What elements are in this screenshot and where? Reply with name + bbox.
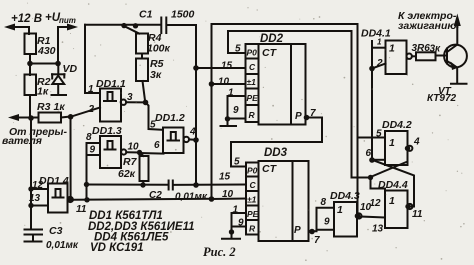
svg-text:P0: P0 [247,48,258,58]
wire DD1.1 out to DD1.2 pin5 [146,102,164,129]
wire row A (R7/C2 line) [84,182,169,187]
wire DD2 carry out P pin7 to DD3 pin5 [231,108,322,167]
svg-text:DD2: DD2 [260,33,284,45]
wire DD4.4 out cross to DD4.2 pin6 [374,161,414,207]
ground under transistor emitter [451,83,467,85]
svg-text:Рис. 2: Рис. 2 [203,245,236,259]
wire DD2 up/down input stub [212,83,246,85]
logic element DD1.2 (Schmitt) [150,112,196,153]
counter DD3 K561IE11 [219,147,309,241]
NOR gate DD4.3 [321,190,372,237]
svg-text:0,01мк: 0,01мк [46,240,79,251]
svg-text:62к: 62к [118,168,136,180]
svg-text:±1: ±1 [247,195,257,205]
resistor R5 3k [136,58,164,102]
svg-text:VD КС191: VD КС191 [90,242,144,254]
svg-text:вателя: вателя [2,135,42,147]
svg-text:2: 2 [88,104,95,115]
svg-text:3: 3 [127,92,133,103]
svg-text:зажиганию: зажиганию [398,20,456,32]
svg-text:R: R [249,110,256,120]
svg-text:4: 4 [413,137,420,148]
svg-text:R3: R3 [37,101,51,113]
svg-text:DD3: DD3 [264,147,288,159]
svg-text:1: 1 [389,195,395,207]
wire row B (DD1.4 out line) [74,197,212,202]
svg-text:DD4.1: DD4.1 [361,28,391,40]
svg-text:1к: 1к [37,86,49,98]
transistor VT KT972 [427,27,467,104]
svg-text:R7: R7 [123,156,138,168]
svg-text:15: 15 [219,172,231,183]
node DD1.1 out / R5 [143,100,149,106]
wire top line to C1 [85,23,161,34]
svg-text:1к: 1к [54,101,66,113]
svg-text:C3: C3 [49,225,63,237]
svg-text:13: 13 [372,224,384,235]
svg-text:4: 4 [189,127,196,138]
svg-text:CT: CT [262,47,278,59]
svg-text:DD1.3: DD1.3 [92,125,122,137]
svg-text:P: P [294,225,301,236]
svg-text:13: 13 [29,193,41,204]
svg-text:12: 12 [32,180,44,191]
wire DD3 up/down stub [212,198,247,201]
logic element DD1.3 (Schmitt) [86,125,140,200]
logic element DD1.1 (Schmitt) [85,25,143,122]
svg-text:100к: 100к [147,43,171,55]
svg-text:DD1.2: DD1.2 [155,112,185,124]
ignition output arrow [398,10,461,32]
+Upit supply arrow [45,12,78,64]
svg-text:7: 7 [314,235,320,246]
svg-text:1: 1 [389,43,395,55]
resistor R6 3k [412,43,448,60]
svg-text:6: 6 [154,140,160,151]
svg-text:11: 11 [412,209,423,220]
resistor R2 1k [25,64,51,119]
svg-text:PE: PE [247,93,259,103]
svg-text:10: 10 [218,77,230,88]
wire DD4.3 out to DD4.4 pin13 [361,217,385,235]
svg-text:пит: пит [59,16,76,25]
logic element DD1.4 (Schmitt) [29,175,87,215]
svg-text:1: 1 [389,137,395,149]
wire R3 node down to row B [70,117,72,198]
svg-text:10: 10 [128,142,140,153]
svg-text:430: 430 [37,45,56,57]
resistor R3 1k [37,101,71,123]
svg-text:P: P [295,111,302,122]
svg-text:C: C [249,62,256,72]
svg-text:9: 9 [324,217,330,228]
+12V supply arrow [4,13,42,34]
inverter DD4.1 [361,28,412,161]
node R1/R2/VD junction [27,61,61,67]
svg-text:DD4.4: DD4.4 [378,179,408,191]
wire carry-in net V5 down to latch [352,31,374,180]
svg-text:R6: R6 [417,43,430,54]
resistor R7 62k [118,153,149,188]
svg-text:3к: 3к [150,69,162,81]
svg-text:CT: CT [262,163,278,175]
svg-text:DD4.2: DD4.2 [382,119,412,131]
ground under DD3 [222,238,240,240]
capacitor C1 1500 [139,9,196,34]
svg-text:12: 12 [370,198,382,209]
svg-text:DD1.1: DD1.1 [96,78,126,90]
NOR gate DD4.2 [358,119,421,165]
svg-text:8: 8 [321,197,327,208]
svg-text:5: 5 [235,44,241,55]
wire DD1.3 out to DD1.2 pin6 [137,150,164,155]
wire breaker net vertical to DD1.4 [28,118,48,229]
svg-text:±1: ±1 [247,77,257,87]
svg-text:+12 В: +12 В [11,13,42,25]
svg-text:PE: PE [247,209,259,219]
svg-text:3к: 3к [430,44,442,55]
svg-text:9: 9 [90,145,96,156]
wire DD4.2 out cross to DD4.4 pin12 [370,150,408,209]
svg-text:C1: C1 [139,9,153,21]
capacitor C3 0.01uF [25,225,79,251]
counter DD2 K561IE11 [218,33,306,125]
NOR gate DD4.4 [378,179,423,228]
svg-text:1: 1 [377,38,382,47]
svg-text:P0: P0 [247,166,258,176]
svg-text:11: 11 [76,204,87,215]
ground under DD2 [221,125,237,127]
svg-text:15: 15 [221,61,233,72]
svg-text:7: 7 [310,108,316,119]
svg-text:C: C [250,180,257,190]
svg-text:1: 1 [337,204,343,216]
wire up/down net V3 down right side [357,24,359,213]
wire DD2 C input stub [196,67,246,69]
wire DD2 PE+R grounded bracket [225,96,246,126]
svg-text:КТ972: КТ972 [427,93,457,104]
wire DD3 carry out P pin7 to DD4.3 inputs [309,208,335,246]
wire DD3 PE+R grounded bracket [229,213,246,238]
svg-text:8: 8 [86,132,92,143]
svg-text:DD1.4: DD1.4 [39,175,69,187]
svg-text:5: 5 [150,120,156,131]
wire up/down net vertical V2 and top line H1 [209,24,358,202]
svg-text:DD4.3: DD4.3 [330,190,360,202]
resistor R1 430 [25,34,56,64]
wire carry-in net H2 [228,31,352,53]
svg-text:5: 5 [234,157,240,168]
svg-text:9: 9 [233,105,239,116]
figure caption Ris.2 [203,245,236,259]
wire clock net vertical V1 [193,25,199,188]
svg-text:10: 10 [222,189,234,200]
svg-text:0,01мк: 0,01мк [175,192,208,203]
resistor R4 100k [136,32,171,59]
breaker input arrow (Ot preryvatelya) [2,114,67,147]
svg-text:VD: VD [63,63,78,75]
node R3 right junction [28,108,100,121]
svg-text:6: 6 [366,148,372,159]
svg-text:1500: 1500 [171,9,195,21]
zener diode VD KC191 [52,63,78,95]
svg-text:R: R [249,224,256,234]
capacitor C2 0.01uF [149,181,246,203]
parts list text [88,210,195,254]
